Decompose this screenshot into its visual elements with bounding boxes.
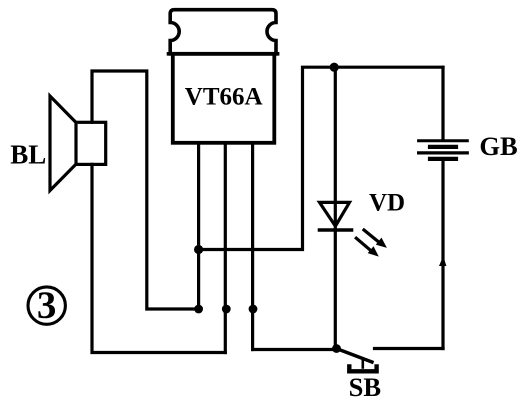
svg-text:SB: SB bbox=[349, 372, 381, 402]
svg-text:BL: BL bbox=[10, 139, 46, 169]
svg-text:GB: GB bbox=[479, 131, 517, 161]
svg-text:3: 3 bbox=[37, 284, 57, 327]
svg-text:VD: VD bbox=[369, 190, 405, 217]
svg-text:VT66A: VT66A bbox=[185, 83, 263, 110]
